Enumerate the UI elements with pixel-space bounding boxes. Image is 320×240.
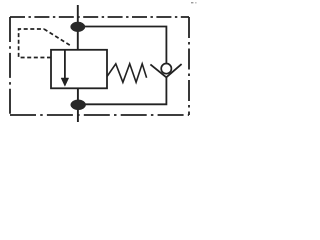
enclosure boundary right [188, 17, 190, 115]
pilot line (dashed) [19, 29, 51, 58]
spring [107, 64, 147, 83]
relief valve flow arrow [64, 50, 66, 79]
pilot line diagonal to main line [44, 29, 72, 46]
paper speck (noise) [191, 2, 193, 3]
wire: main inlet line (top) [77, 5, 79, 50]
check valve ball [161, 64, 171, 74]
wire: bypass branch top (to check valve) [78, 27, 167, 64]
junction dot (bottom node) [71, 100, 86, 110]
enclosure boundary (dash-dot box) top [10, 16, 189, 18]
wire: main outlet line (bottom) [77, 88, 79, 122]
enclosure boundary left [9, 17, 11, 115]
junction dot (top node) [71, 22, 85, 32]
wire: bypass branch bottom (from check valve) [78, 77, 166, 104]
relief valve body (square envelope) [51, 50, 107, 89]
enclosure boundary bottom [10, 114, 189, 116]
check valve seat (V) [150, 64, 181, 77]
